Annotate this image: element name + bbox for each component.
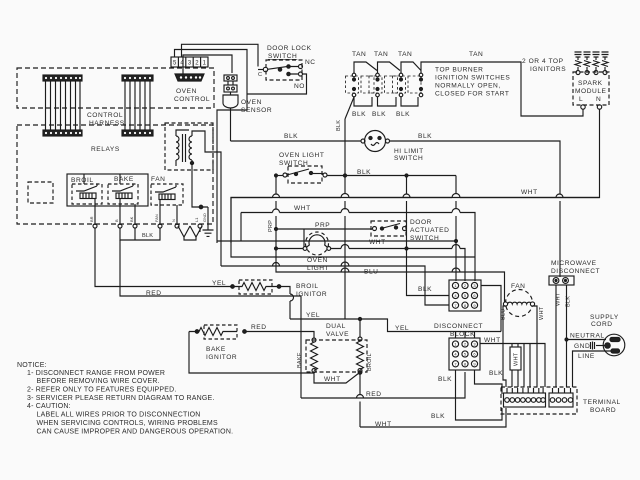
oven sensor connector top xyxy=(224,75,237,81)
wire YEL run xyxy=(290,319,501,332)
terminal board dashed box xyxy=(501,387,577,414)
relay K1 dashed box xyxy=(72,184,102,204)
svg-text:9: 9 xyxy=(473,303,476,308)
svg-text:BLK: BLK xyxy=(489,370,503,377)
svg-text:TOP BURNER: TOP BURNER xyxy=(435,67,484,74)
wire pin jumper BLK xyxy=(120,228,160,240)
svg-text:B: B xyxy=(114,219,119,222)
door lock switch contacts xyxy=(263,67,267,71)
hi limit switch S2 xyxy=(365,131,386,152)
svg-text:RED: RED xyxy=(251,324,267,331)
svg-text:DOOR LOCK: DOOR LOCK xyxy=(267,45,312,52)
transformer T1 secondary coil xyxy=(189,131,205,163)
ignition switch 3 xyxy=(401,62,421,73)
svg-text:OVEN: OVEN xyxy=(176,88,197,95)
spark module U1 dashed box xyxy=(573,72,609,105)
wire BLK trunk to block col1 xyxy=(455,176,457,282)
wire bake ignitor left leg xyxy=(189,332,314,374)
fan motor winding xyxy=(508,302,532,304)
junction dot door trunk top xyxy=(405,174,408,177)
transformer T1 core xyxy=(183,134,186,162)
relay K3 dashed box xyxy=(151,184,183,205)
svg-text:1: 1 xyxy=(203,61,207,67)
fan motor terminals xyxy=(503,302,507,306)
svg-text:RED: RED xyxy=(146,290,162,297)
junction dot PRP branch xyxy=(275,228,278,231)
disconnect block lower connector xyxy=(449,338,480,370)
oven light B1 xyxy=(306,232,329,255)
groups injected below xyxy=(17,68,214,224)
wire N to WHT bus xyxy=(231,109,600,243)
ignitor electrode 3 xyxy=(593,52,600,70)
svg-text:CAN CAUSE IMPROPER AND DANGERO: CAN CAUSE IMPROPER AND DANGEROUS OPERATI… xyxy=(37,429,234,436)
svg-text:8: 8 xyxy=(464,303,467,308)
fan motor M1 dashed circle xyxy=(506,290,533,317)
svg-text:WHT: WHT xyxy=(514,352,520,366)
svg-text:6: 6 xyxy=(473,293,476,298)
wire lower block spare xyxy=(475,370,503,394)
svg-text:HARNESS: HARNESS xyxy=(89,120,125,127)
svg-text:BLOCK: BLOCK xyxy=(450,331,475,338)
svg-text:N: N xyxy=(596,96,601,103)
svg-text:IGNITORS: IGNITORS xyxy=(530,66,566,73)
svg-text:CORD: CORD xyxy=(591,321,613,328)
ignitor electrode 2 xyxy=(584,52,591,70)
svg-text:HI LIMIT: HI LIMIT xyxy=(394,148,424,155)
svg-text:SWITCH: SWITCH xyxy=(268,53,297,60)
svg-text:SWITCH: SWITCH xyxy=(394,155,423,162)
wire feeds into terminal board xyxy=(512,344,530,388)
svg-text:BAKE: BAKE xyxy=(297,352,303,368)
svg-text:PRP: PRP xyxy=(268,220,274,232)
relay transformer T1 dashed box xyxy=(165,123,213,170)
junction dot lamp WHT door trunk xyxy=(405,247,408,250)
wire sensor to BLK bus xyxy=(230,108,232,141)
svg-text:9: 9 xyxy=(473,362,476,367)
wire bake bottom to broil bottom xyxy=(314,373,359,384)
svg-text:1- DISCONNECT RANGE FROM POWER: 1- DISCONNECT RANGE FROM POWER xyxy=(27,370,165,377)
svg-text:BLK: BLK xyxy=(372,111,386,118)
terminal board left strip xyxy=(504,393,546,407)
wire broil valve top drop xyxy=(359,319,361,337)
svg-text:FAN: FAN xyxy=(154,214,159,222)
wire NO to trunk xyxy=(247,74,307,94)
svg-text:DISCONNECT: DISCONNECT xyxy=(434,323,483,330)
svg-text:BLK: BLK xyxy=(431,413,445,420)
svg-text:YEL: YEL xyxy=(306,312,320,319)
svg-text:BR: BR xyxy=(89,216,94,222)
wire run C xyxy=(231,243,475,257)
junction dot BLK trunk crossing xyxy=(343,174,346,177)
svg-text:OVEN LIGHT: OVEN LIGHT xyxy=(279,152,324,159)
broil ignitor R1 dashed box xyxy=(239,280,272,294)
svg-text:PRP: PRP xyxy=(315,222,330,229)
svg-text:3: 3 xyxy=(473,283,476,288)
svg-text:BOARD: BOARD xyxy=(590,407,616,414)
harness connector 1 top bar xyxy=(43,75,82,81)
svg-text:BAKE: BAKE xyxy=(114,176,134,183)
oven sensor bulb xyxy=(223,95,238,108)
svg-text:BLK: BLK xyxy=(336,120,342,131)
boxed WHT cable label xyxy=(510,347,521,370)
wire WHT bottom bus xyxy=(360,408,506,427)
hop marks row3 line xyxy=(273,262,350,266)
ignitor electrode 1 xyxy=(575,52,582,70)
wire door trunk into relay board xyxy=(217,94,247,243)
svg-text:WHEN SERVICING CONTROLS, WIRIN: WHEN SERVICING CONTROLS, WIRING PROBLEMS xyxy=(37,420,218,427)
svg-text:BAKE: BAKE xyxy=(206,346,226,353)
svg-text:NC: NC xyxy=(305,59,316,66)
svg-text:3: 3 xyxy=(473,342,476,347)
svg-text:FAN: FAN xyxy=(511,283,525,290)
svg-text:7: 7 xyxy=(454,362,457,367)
bake valve coil terminals xyxy=(312,338,316,342)
junction dot YEL valve xyxy=(358,317,361,320)
wire WHT run to terminal board xyxy=(480,344,545,388)
svg-text:TAN: TAN xyxy=(352,51,366,58)
svg-text:2 OR 4 TOP: 2 OR 4 TOP xyxy=(522,58,564,65)
wire line xyxy=(573,351,612,387)
svg-text:1: 1 xyxy=(454,342,457,347)
svg-text:WHT: WHT xyxy=(294,205,311,212)
wire oven light switch to fan trunk BLK xyxy=(327,175,456,177)
relay K2 contact and coil xyxy=(112,184,133,191)
oven control connector bar xyxy=(175,74,204,81)
svg-text:TAN: TAN xyxy=(374,51,388,58)
svg-text:FAN: FAN xyxy=(151,176,165,183)
svg-text:MICROWAVE: MICROWAVE xyxy=(551,260,597,267)
bake ignitor R2 resistor xyxy=(189,328,237,336)
oven light switch S3 dashed box xyxy=(288,166,322,183)
svg-text:3- SERVICER PLEASE RETURN DIAG: 3- SERVICER PLEASE RETURN DIAGRAM TO RAN… xyxy=(27,395,215,402)
svg-text:BLK: BLK xyxy=(352,111,366,118)
svg-text:WHT: WHT xyxy=(539,306,545,320)
svg-text:BLK: BLK xyxy=(396,111,410,118)
svg-text:WHT: WHT xyxy=(521,189,538,196)
junction dot bake ignitor right xyxy=(243,330,247,334)
svg-text:BLK: BLK xyxy=(418,133,432,140)
harness connector 2 wires xyxy=(125,81,150,130)
terminal screws ticks xyxy=(507,388,571,393)
svg-text:BEFORE REMOVING WIRE COVER.: BEFORE REMOVING WIRE COVER. xyxy=(37,378,160,385)
svg-text:BROIL: BROIL xyxy=(71,177,94,184)
svg-text:8: 8 xyxy=(464,362,467,367)
wire TAN bus to spark module L xyxy=(421,62,583,116)
svg-text:BLU: BLU xyxy=(364,269,378,276)
dual valve dashed box xyxy=(306,340,367,372)
svg-text:VALVE: VALVE xyxy=(326,331,349,338)
wire door switch trunk vertical xyxy=(407,176,450,296)
wire oven light switch left to PRP trunk xyxy=(276,175,283,177)
connector pin row circles xyxy=(93,224,97,228)
gnd glyph xyxy=(591,342,595,350)
svg-text:BLK: BLK xyxy=(284,133,298,140)
hop marks BLU run xyxy=(341,268,460,272)
svg-text:4: 4 xyxy=(454,352,457,357)
junction dot run A xyxy=(455,240,458,243)
wire PRP row to door switch xyxy=(276,228,372,230)
wire row3 feed xyxy=(221,266,449,305)
svg-text:GND: GND xyxy=(574,343,590,350)
svg-text:C: C xyxy=(258,72,262,78)
wire lamp series line left xyxy=(276,248,303,250)
wire bake ignitor to bake valve top xyxy=(246,332,314,339)
wire connector top loop to door lock C xyxy=(182,44,259,66)
wire secondary to ground run xyxy=(192,163,208,207)
small dashed box left of broil relay xyxy=(28,182,53,203)
ignition switch 2 xyxy=(378,62,401,73)
wire microwave pins down to terminal board xyxy=(556,285,567,387)
svg-text:SUPPLY: SUPPLY xyxy=(590,314,619,321)
svg-text:N: N xyxy=(171,219,176,222)
harness connector 2 top bar xyxy=(122,75,153,81)
broil valve coil xyxy=(357,341,364,370)
ignitor electrode 4 xyxy=(602,52,609,70)
svg-text:L1: L1 xyxy=(194,217,199,222)
wire sensor plug gap xyxy=(228,81,233,95)
wire oven control bar to sensor xyxy=(183,55,232,74)
wire upper block right loop xyxy=(481,286,501,332)
svg-text:2: 2 xyxy=(464,283,467,288)
svg-text:NEUTRAL: NEUTRAL xyxy=(570,333,605,340)
svg-text:5: 5 xyxy=(173,61,177,67)
svg-text:NORMALLY OPEN,: NORMALLY OPEN, xyxy=(435,83,501,90)
svg-text:L: L xyxy=(579,96,583,103)
microwave disconnect connector xyxy=(549,276,574,285)
svg-text:SPARK: SPARK xyxy=(578,80,603,87)
svg-text:6: 6 xyxy=(473,352,476,357)
supply cord plug P2 xyxy=(603,334,625,356)
svg-text:BLK: BLK xyxy=(438,376,452,383)
wire fan left down xyxy=(503,306,506,387)
junction dot bake ignitor left xyxy=(195,330,199,334)
relay K3 contact and coil xyxy=(155,185,176,192)
svg-text:1: 1 xyxy=(454,283,457,288)
oven sensor connector lower xyxy=(224,85,237,92)
wire gnd xyxy=(596,345,605,347)
bake valve coil xyxy=(311,342,318,371)
junction dot near ground xyxy=(199,205,203,209)
svg-text:RED: RED xyxy=(366,391,382,398)
svg-text:2- REFER ONLY TO FEATURES EQUI: 2- REFER ONLY TO FEATURES EQUIPPED. xyxy=(27,387,177,394)
svg-text:BLK: BLK xyxy=(142,233,153,239)
wire lower block top feeds xyxy=(456,332,475,339)
svg-text:BLK: BLK xyxy=(418,286,432,293)
svg-text:4- CAUTION:: 4- CAUTION: xyxy=(27,403,71,410)
wire hi limit to microwave trunk xyxy=(390,141,561,277)
svg-text:DUAL: DUAL xyxy=(326,323,346,330)
svg-text:CLOSED FOR START: CLOSED FOR START xyxy=(435,91,510,98)
door lock switch dashed box xyxy=(266,60,302,80)
wire pin BR to broil ignitor YEL xyxy=(95,228,231,287)
relays dashed box xyxy=(17,125,213,224)
svg-text:BROIL: BROIL xyxy=(296,283,319,290)
plug triangle 2 xyxy=(190,226,202,237)
harness connector 1 wires xyxy=(46,81,81,130)
relay board solid box xyxy=(67,174,148,206)
bake ignitor R2 dashed box xyxy=(204,325,237,339)
svg-text:ACTUATED: ACTUATED xyxy=(410,227,449,234)
wire lamp right WHT to block col2 xyxy=(331,249,465,282)
svg-text:OVEN: OVEN xyxy=(307,257,328,264)
svg-text:5: 5 xyxy=(464,293,467,298)
wire run B xyxy=(240,213,242,242)
wire L1 pin to spade xyxy=(184,228,200,240)
svg-text:GND: GND xyxy=(202,213,207,222)
svg-text:MODULE: MODULE xyxy=(575,88,607,95)
transformer T1 primary coil xyxy=(176,130,189,166)
oven control plug P1 numbered connector xyxy=(171,57,208,67)
svg-text:CONTROL: CONTROL xyxy=(174,96,210,103)
wire WHT second bus xyxy=(241,213,475,282)
svg-text:CONTROL: CONTROL xyxy=(87,112,123,119)
junction dot lamp trunk xyxy=(275,247,278,250)
wire switch1 bottom to BLK trunk xyxy=(345,97,354,119)
svg-text:DOOR: DOOR xyxy=(410,219,432,226)
wire sensor trunk to hi limit xyxy=(231,140,362,142)
wire run A to block col1 xyxy=(217,240,456,242)
junction dot broil ignitor left xyxy=(231,285,235,289)
svg-text:7: 7 xyxy=(454,303,457,308)
svg-text:2: 2 xyxy=(195,61,199,67)
wire lamp left drop xyxy=(303,229,305,247)
svg-text:NOTICE:: NOTICE: xyxy=(17,362,47,369)
svg-text:5: 5 xyxy=(464,352,467,357)
svg-text:IGNITION SWITCHES: IGNITION SWITCHES xyxy=(435,75,510,82)
svg-text:4: 4 xyxy=(454,293,457,298)
wire hops on WHT main bus xyxy=(273,194,461,198)
disconnect block upper connector xyxy=(449,280,481,311)
ignition switch right pole contacts xyxy=(419,73,423,77)
svg-text:RELAYS: RELAYS xyxy=(91,146,120,153)
svg-text:TAN: TAN xyxy=(469,51,483,58)
wire pin B to RED run xyxy=(120,240,301,398)
wire neutral xyxy=(567,339,607,341)
svg-text:NO: NO xyxy=(294,83,305,90)
wire broil ignitor to YEL run with hop xyxy=(281,287,294,320)
junction dot secondary xyxy=(190,161,193,164)
control harness dashed box xyxy=(17,68,214,108)
svg-text:BROIL: BROIL xyxy=(367,353,373,371)
plug triangle 1 xyxy=(178,226,190,237)
terminal board right strip xyxy=(549,393,573,407)
svg-text:TAN: TAN xyxy=(398,51,412,58)
harness connector 2 bottom bar xyxy=(122,130,153,136)
wire connector loop 2 to door lock NO trunk xyxy=(175,50,248,95)
svg-text:YEL: YEL xyxy=(395,325,409,332)
svg-text:LABEL ALL WIRES PRIOR TO DISCO: LABEL ALL WIRES PRIOR TO DISCONNECTION xyxy=(37,412,201,419)
relay K1 contact and coil xyxy=(76,184,97,191)
harness connector 1 bottom bar xyxy=(43,130,82,136)
wire broil bottom down to WHT bus xyxy=(359,373,361,428)
wire C lead xyxy=(258,69,263,71)
svg-text:YEL: YEL xyxy=(212,280,226,287)
svg-text:WHT: WHT xyxy=(324,376,341,383)
wire lower block bottom BLK xyxy=(456,370,503,420)
broil ignitor R1 resistor xyxy=(234,283,278,291)
wire PRP trunk xyxy=(276,176,505,305)
wire BLK trunk xyxy=(344,119,346,319)
svg-text:WHT: WHT xyxy=(369,239,386,246)
svg-text:DISCONNECT: DISCONNECT xyxy=(551,268,600,275)
wire fan right down xyxy=(533,306,538,387)
svg-text:3: 3 xyxy=(188,61,192,67)
door actuated switch S4 dashed box xyxy=(371,221,406,236)
ground xyxy=(203,207,214,236)
svg-text:TERMINAL: TERMINAL xyxy=(583,399,621,406)
svg-text:2: 2 xyxy=(464,342,467,347)
svg-text:OVEN: OVEN xyxy=(241,99,262,106)
svg-text:BK: BK xyxy=(129,216,134,222)
door actuated switch contacts xyxy=(373,227,377,231)
svg-text:LINE: LINE xyxy=(578,353,595,360)
wire RED lower bus xyxy=(301,372,465,398)
broil valve coil terminals xyxy=(358,337,362,341)
relay K2 dashed box xyxy=(108,184,138,204)
oven light switch contacts xyxy=(283,173,287,177)
junction dot broil valve bottom xyxy=(358,371,362,375)
junction dot broil ignitor right xyxy=(277,285,281,289)
ignition switch 1 xyxy=(354,62,377,73)
wire secondary right trunk xyxy=(205,141,221,266)
svg-text:IGNITOR: IGNITOR xyxy=(206,354,237,361)
